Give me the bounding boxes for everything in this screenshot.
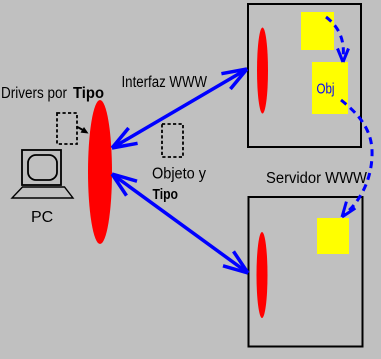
svg-text:Interfaz WWW: Interfaz WWW [122,74,208,91]
dashed rect left (driver slot) [57,113,77,144]
PC screen inner [28,155,57,180]
PC monitor outer [22,150,61,185]
dashed rect middle (objeto y tipo) [162,124,183,157]
arrow interfaz (double-headed) [112,69,247,148]
box bottom-right (Servidor WWW) [249,197,363,347]
svg-text:Drivers por: Drivers por [1,85,67,102]
svg-text:Tipo: Tipo [153,187,179,203]
svg-text:PC: PC [31,209,53,226]
svg-text:Tipo: Tipo [73,85,104,102]
arrow servidor (double-headed) [112,174,248,273]
dashed curve top (square to Obj) [326,17,349,62]
yellow square bottom [317,218,349,254]
box top-right (Interfaz WWW server) [248,4,361,147]
ellipse server top [257,28,268,114]
yellow rect Obj [312,62,348,114]
svg-text:Objeto y: Objeto y [152,166,206,183]
svg-text:Obj: Obj [317,82,335,98]
svg-text:Servidor WWW: Servidor WWW [266,170,367,187]
ellipse server bottom [257,232,268,318]
dashed curve bottom (Obj to bottom square) [341,100,372,217]
PC keyboard base [12,187,73,198]
ellipse driver (big red) [88,100,112,244]
small black arrow from dashed rect to ellipse [77,127,84,131]
yellow square top [301,12,334,50]
